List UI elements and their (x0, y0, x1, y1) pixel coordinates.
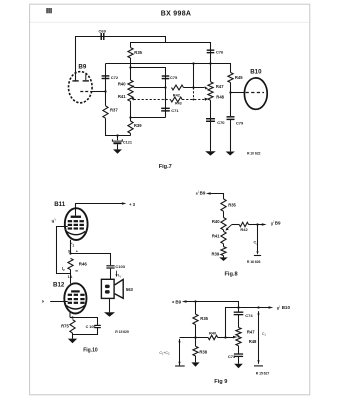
svg-text:C69: C69 (99, 28, 107, 33)
resistor R47 (208, 82, 213, 91)
wiper arrow R40 (133, 86, 135, 87)
resistor R41 fig8 (221, 231, 226, 243)
svg-text:C76: C76 (216, 50, 224, 55)
node cathode junction (69, 252, 71, 254)
tube B12 (64, 283, 86, 313)
resistor R42 (172, 85, 184, 90)
capacitor C70 (206, 118, 215, 119)
wire top fig9 (187, 302, 239, 313)
svg-text:C1: C1 (262, 332, 267, 337)
wiper wire R40 to R42 (135, 87, 166, 89)
wire R35-R40 fig8 (223, 211, 225, 217)
svg-text:B11: B11 (54, 201, 66, 208)
ground speaker (109, 299, 111, 312)
wiper arrow R47 (205, 86, 209, 89)
svg-text:B12: B12 (53, 282, 65, 289)
svg-text:B10: B10 (250, 69, 262, 76)
resistor R39 (128, 121, 133, 133)
svg-text:C73: C73 (228, 354, 236, 359)
svg-text:B9: B9 (78, 64, 86, 71)
svg-text:B9: B9 (175, 299, 181, 304)
svg-text:R 15 627: R 15 627 (256, 371, 270, 375)
resistor R35 (128, 48, 133, 58)
svg-text:R46: R46 (79, 261, 88, 266)
page number mark (46, 8, 47, 13)
wire R41-R39 fig8 (223, 244, 225, 247)
svg-text:C103: C103 (115, 264, 125, 269)
wire C71 to bottom rail (165, 111, 167, 117)
resistor R40 fig8 (221, 218, 226, 230)
wiper arm fig8 (228, 225, 232, 229)
capacitor C71 (161, 108, 170, 109)
svg-text:I2: I2 (62, 266, 65, 272)
wire R75 C105 loop top (70, 318, 98, 326)
B12 electrode grid (68, 294, 72, 296)
B11 grid wire (57, 227, 71, 274)
svg-text:R35: R35 (134, 50, 142, 55)
svg-text:+ 3: + 3 (129, 202, 136, 207)
node C75 bottom (164, 86, 166, 88)
svg-text:R35: R35 (200, 316, 208, 321)
B11 anode lead wire to terminal 3 (76, 204, 123, 216)
capacitor C121 electrolytic (117, 136, 119, 141)
resistor R35 fig8 (221, 199, 226, 211)
svg-text:R43: R43 (175, 101, 182, 105)
B12 cathode arc (66, 306, 84, 309)
node dashed (193, 99, 195, 101)
svg-text:C71: C71 (171, 108, 179, 113)
wire input fig8 (211, 194, 224, 199)
wiper arrow fig9 (233, 336, 237, 339)
dashed wiper line R41 (134, 99, 171, 101)
wire R35 bottom fig9 (195, 325, 197, 338)
tube B10 (244, 78, 267, 109)
resistor R75 (70, 320, 75, 333)
dashed line R43 to R48 (182, 99, 204, 101)
ground fig8 (223, 256, 225, 258)
svg-text:R48: R48 (216, 95, 224, 100)
resistor R48 (208, 91, 213, 100)
svg-text:R37: R37 (110, 108, 118, 113)
resistor R40 (128, 80, 133, 90)
wire R46 to B12 (70, 270, 72, 284)
wire C76 column (210, 50, 212, 152)
node B9 cathode (104, 90, 106, 92)
B11 cathode arc (66, 231, 85, 234)
wire top rail R35 to C76 (131, 43, 211, 50)
wire B9 cathode to C72 node (90, 91, 105, 93)
speaker winding marks (105, 285, 110, 289)
wire C103 to speaker (110, 269, 112, 280)
svg-text:1A: 1A (68, 275, 73, 279)
wiper arrow R48 (205, 98, 209, 101)
tube B9 (69, 72, 93, 103)
svg-text:R75: R75 (61, 323, 69, 328)
current arrow Iv (116, 271, 118, 275)
svg-text:R38: R38 (199, 349, 207, 354)
wire A grid rail (106, 64, 231, 73)
svg-text:B9: B9 (200, 190, 206, 195)
speaker cone (115, 279, 124, 298)
svg-text:2: 2 (256, 242, 258, 246)
svg-text:R40: R40 (118, 82, 126, 87)
node R42 right (192, 86, 194, 88)
resistor R45 (228, 73, 233, 83)
capacitor C79 (227, 116, 235, 117)
B9 left anode lead (75, 72, 77, 81)
resistor R39 fig8 (221, 247, 226, 256)
ground R75 (68, 339, 77, 344)
svg-text:R47: R47 (247, 329, 255, 334)
svg-text:C75: C75 (170, 75, 178, 80)
svg-text:C74: C74 (245, 313, 253, 318)
wire C74 to R47 fig9 (238, 314, 240, 327)
node vertical tap fig9 (224, 336, 226, 338)
svg-text:C70: C70 (217, 120, 225, 125)
svg-text:R40: R40 (209, 330, 216, 335)
svg-text:Fig.8: Fig.8 (225, 271, 238, 277)
capacitor C73 (234, 353, 243, 354)
capacitor C75 (162, 75, 170, 76)
svg-text:BX 998A: BX 998A (161, 10, 192, 17)
resistor R48 fig9 (236, 337, 241, 346)
svg-text:1: 1 (279, 304, 281, 308)
svg-text:R 15 629: R 15 629 (115, 330, 129, 334)
ground C73 fig9 (238, 357, 240, 364)
capacitor C76 (207, 49, 215, 50)
wire C72 branch (105, 64, 107, 106)
wire R41 node to C71 (131, 117, 166, 119)
node C121 tap (116, 134, 118, 136)
wire R42 to output fig8 (249, 224, 263, 226)
ground C121 (113, 149, 122, 153)
B12 cathode lead (69, 311, 71, 318)
ground R38 fig9 (195, 356, 197, 363)
svg-text:C1+C2: C1+C2 (159, 351, 170, 356)
resistor R37 (103, 106, 108, 118)
resistor R46 (68, 258, 73, 269)
node R45 bottom (229, 91, 231, 93)
resistor R47 fig9 (236, 328, 241, 336)
svg-text:1: 1 (72, 243, 74, 247)
B11 electrode grid (68, 220, 72, 222)
svg-text:R41: R41 (118, 94, 126, 99)
svg-text:R47: R47 (216, 84, 224, 89)
svg-text:563: 563 (126, 287, 134, 292)
wire R39 bottom (130, 133, 132, 135)
capacitor C69 (101, 33, 102, 40)
measure line C1+C2 (179, 339, 181, 366)
speaker transformer box (101, 279, 114, 298)
svg-text:R 10 622: R 10 622 (247, 151, 261, 155)
svg-text:R42: R42 (173, 92, 181, 97)
node screen top (192, 62, 194, 64)
svg-text:R35: R35 (228, 203, 236, 208)
wire R41 to R39 (130, 101, 132, 121)
wire tap to output fig9 (226, 308, 269, 338)
wire C105 loop bottom (73, 328, 98, 339)
wire B9 anode to top rail (76, 37, 166, 81)
svg-text:B9: B9 (275, 220, 281, 225)
wire cathode rail to C103 (71, 254, 111, 266)
svg-text:C79: C79 (236, 121, 244, 126)
wire wiper rail fig9 (180, 337, 209, 339)
wire wiper to R42 fig8 (232, 224, 239, 226)
svg-text:Fig.10: Fig.10 (83, 347, 98, 353)
svg-text:a: a (172, 300, 174, 304)
wire screen vertical (193, 64, 195, 88)
capacitor C72 (102, 75, 110, 76)
svg-text:B10: B10 (282, 305, 291, 310)
capacitor C103 (106, 265, 114, 266)
node R75 top (71, 316, 73, 318)
dashed screen vertical (193, 88, 195, 100)
wire R35 to R40 (130, 58, 132, 80)
wire R42 to R47 wiper (184, 87, 205, 89)
svg-text:R45: R45 (235, 75, 243, 80)
svg-text:R40: R40 (212, 219, 220, 224)
svg-text:R39: R39 (212, 252, 220, 257)
wire node to C75 branch (131, 68, 166, 118)
svg-text:R 16 626: R 16 626 (247, 260, 261, 264)
wire R40 to wiper fig9 (218, 337, 234, 339)
resistor R40 fig9 (208, 335, 218, 339)
fold line (30, 21, 310, 23)
svg-text:R39: R39 (134, 123, 142, 128)
node C2 tap (256, 223, 258, 225)
measure line C2 (257, 225, 259, 252)
resistor R43 (170, 97, 182, 102)
B11 anode bar (71, 216, 81, 218)
svg-text:C72: C72 (111, 75, 119, 80)
node R35 top fig9 (194, 300, 196, 302)
capacitor C74 (234, 312, 244, 313)
wire R48 to C73 fig9 (238, 346, 240, 354)
node R35 fig9 (194, 336, 196, 338)
svg-text:R41: R41 (212, 233, 220, 238)
wiper arrow R41 (131, 98, 134, 101)
B12 grid wire stub (50, 301, 67, 303)
node C76 on wire A (209, 62, 211, 64)
wire B10 grid (231, 92, 245, 94)
svg-text:R48: R48 (249, 339, 257, 344)
node C1 tap fig9 (257, 306, 259, 308)
wire R45 column (230, 83, 232, 152)
B12 anode bar (71, 290, 80, 292)
svg-text:C121: C121 (123, 140, 132, 144)
B9 right anode lead (85, 74, 87, 80)
node R47 R48 fig9 (238, 336, 240, 338)
resistor R38 fig9 (193, 346, 198, 356)
B9 cathode dashes (80, 91, 88, 93)
svg-text:V: V (119, 274, 121, 278)
polarity minus (75, 270, 78, 272)
B10 grid dashes (246, 92, 264, 94)
svg-text:a: a (41, 299, 45, 304)
svg-text:Fig 9: Fig 9 (214, 379, 227, 385)
svg-text:C 105: C 105 (86, 325, 96, 329)
resistor R41 (128, 90, 133, 101)
measure line C1 (258, 311, 260, 364)
capacitor C105 (94, 325, 101, 326)
node column crossing fig9 (237, 306, 239, 308)
resistor R42 fig8 (239, 222, 248, 226)
B11 cathode lead (70, 240, 72, 254)
svg-text:R42: R42 (240, 227, 248, 232)
wire R37 to bottom rail (106, 118, 131, 135)
ground C70 (205, 151, 216, 155)
node R35 bottom (129, 66, 131, 68)
terminal g1 B10 (269, 306, 274, 309)
tube B11 (65, 208, 88, 240)
node R41 bottom rail (129, 116, 131, 118)
svg-text:Fig.7: Fig.7 (159, 164, 172, 170)
ground C79 (226, 152, 235, 156)
resistor R35 fig9 (193, 314, 198, 325)
node C71 crossing (165, 99, 167, 101)
terminal g1 B9 (262, 223, 267, 226)
